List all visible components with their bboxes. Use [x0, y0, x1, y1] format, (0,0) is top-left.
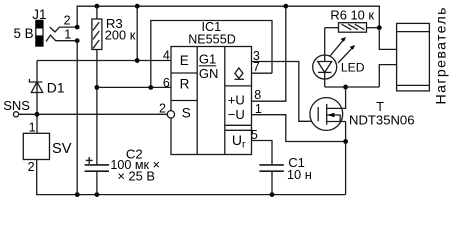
node ground rail C1 [270, 192, 275, 197]
IC1 pin2 inversion bubble [167, 111, 174, 118]
IC1 output diamond symbol [235, 68, 243, 78]
svg-text:× 25 В: × 25 В [117, 169, 155, 184]
capacitor C2 [85, 164, 109, 166]
svg-text:NE555D: NE555D [188, 33, 236, 47]
node source junction [343, 139, 348, 144]
wire J1 pin1 to ground rail [76, 41, 78, 195]
transistor T MOSFET circle [310, 98, 343, 131]
node ground rail C2 [95, 192, 100, 197]
node pin4 junction [135, 58, 140, 63]
wire heater top connection [379, 28, 396, 50]
node R6 right junction [377, 25, 382, 30]
wire SV pin2 to ground rail [37, 160, 346, 195]
svg-text:1: 1 [64, 27, 71, 41]
wire R3 bottom to C2 [96, 50, 98, 165]
svg-text:GN: GN [199, 66, 219, 81]
MOSFET gate bar [317, 107, 319, 121]
wire pin 6 (R3/C2 to IC) [97, 86, 171, 88]
svg-text:E: E [180, 53, 189, 68]
svg-text:8: 8 [254, 88, 261, 102]
svg-text:R: R [180, 77, 190, 92]
svg-text:D1: D1 [47, 80, 65, 96]
diode LED [313, 55, 337, 79]
svg-text:1: 1 [29, 121, 36, 135]
svg-text:S: S [182, 106, 191, 121]
svg-text:SV: SV [52, 141, 72, 157]
wire source to ground rail [345, 142, 347, 195]
node R3/C2/pin6 junction [95, 85, 100, 90]
svg-text:LED: LED [341, 61, 365, 75]
svg-text:NDT35N06: NDT35N06 [349, 112, 415, 127]
svg-text:10 н: 10 н [287, 167, 312, 182]
svg-text:R6 10 к: R6 10 к [330, 8, 374, 23]
wire pin 7 [252, 72, 273, 74]
wire pin 1 to source [252, 115, 346, 142]
zener diode D1 [36, 61, 38, 134]
J1 contact pin 2 [50, 27, 77, 32]
resistor R6 [325, 27, 339, 29]
wire pin 4 (D1 to IC) [37, 60, 171, 62]
wire LED bottom to drain wire [325, 86, 380, 88]
svg-text:4: 4 [163, 49, 170, 63]
wire pin 3 to gate [252, 62, 319, 122]
svg-text:5 В: 5 В [14, 26, 34, 41]
MOSFET drain stub [327, 87, 346, 108]
svg-text:+U: +U [228, 92, 245, 107]
wire top +5V rail [77, 6, 379, 28]
wire heater bottom connection [379, 65, 396, 87]
svg-text:6: 6 [163, 76, 170, 90]
node J1 pin1 junction [75, 38, 80, 43]
capacitor C1 [259, 164, 283, 166]
terminal SNS [13, 112, 18, 117]
svg-text:1: 1 [255, 102, 262, 116]
component SV sensor box [23, 133, 49, 159]
J1 contact pin 1 [46, 35, 77, 41]
node top rail junction +U riser [283, 4, 288, 9]
component heater box [397, 23, 430, 91]
svg-text:−U: −U [228, 107, 245, 122]
node J1 pin2 junction [75, 25, 80, 30]
svg-text:2: 2 [28, 160, 35, 174]
C2 plus sign [86, 159, 93, 161]
node drain junction [343, 85, 348, 90]
LED emission arrows [330, 39, 345, 56]
wire discharge loop pin7 to pin6 [151, 21, 272, 88]
MOSFET substrate stub with arrow [327, 115, 341, 122]
node ground rail J1 [75, 192, 80, 197]
node loop junction [148, 85, 153, 90]
node SNS junction [35, 112, 40, 117]
svg-text:Нагреватель: Нагреватель [433, 6, 449, 104]
wire pin 8 to +5V [252, 6, 286, 101]
connector J1 body [36, 20, 43, 46]
wire reset riser [136, 6, 138, 60]
wire SNS to pin 2 [19, 113, 168, 115]
svg-text:2: 2 [159, 102, 166, 116]
MOSFET source stub [327, 121, 346, 123]
node top rail junction R3 [95, 4, 100, 9]
op-amp IC1 NE555D box [171, 47, 252, 155]
resistor R3 [96, 6, 98, 19]
svg-text:7: 7 [253, 60, 260, 74]
svg-text:5: 5 [251, 128, 258, 142]
svg-text:J1: J1 [32, 7, 46, 22]
svg-text:200 к: 200 к [105, 28, 136, 43]
MOSFET channel bar [326, 104, 328, 125]
wire pin 5 to C1 [252, 141, 273, 165]
svg-text:G1: G1 [199, 51, 216, 66]
svg-text:SNS: SNS [3, 98, 30, 113]
node top rail junction reset riser [135, 4, 140, 9]
svg-text:2: 2 [64, 13, 71, 27]
